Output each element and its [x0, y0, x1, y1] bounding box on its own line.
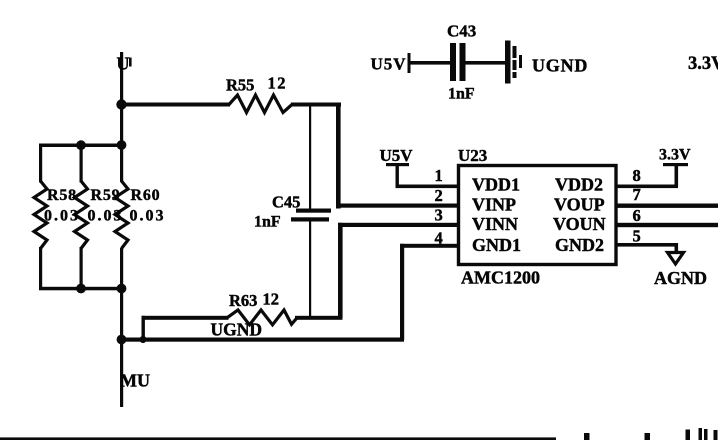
- svg-text:1nF: 1nF: [448, 86, 475, 103]
- svg-text:2: 2: [435, 186, 443, 205]
- svg-text:R59: R59: [91, 187, 121, 204]
- svg-text:C43: C43: [447, 22, 476, 41]
- svg-text:AMC1200: AMC1200: [461, 268, 540, 288]
- svg-text:VOUP: VOUP: [554, 195, 605, 215]
- svg-text:7: 7: [633, 185, 641, 204]
- svg-text:1nF: 1nF: [254, 214, 281, 231]
- svg-text:VINN: VINN: [472, 214, 518, 234]
- svg-text:12: 12: [263, 290, 280, 309]
- svg-text:GND1: GND1: [472, 235, 521, 255]
- svg-text:U5V: U5V: [380, 146, 414, 165]
- svg-text:VDD2: VDD2: [555, 175, 603, 195]
- svg-text:0.03: 0.03: [130, 208, 166, 225]
- svg-text:VINP: VINP: [472, 195, 516, 215]
- svg-text:U: U: [117, 54, 130, 74]
- svg-text:3: 3: [435, 206, 443, 225]
- svg-text:U5V: U5V: [371, 55, 407, 74]
- svg-text:5: 5: [633, 227, 641, 246]
- svg-text:UGND: UGND: [211, 320, 263, 340]
- svg-text:R60: R60: [131, 187, 161, 204]
- svg-text:12: 12: [268, 74, 288, 93]
- svg-text:MU: MU: [120, 371, 150, 391]
- svg-text:R58: R58: [47, 187, 77, 204]
- svg-text:8: 8: [633, 166, 641, 185]
- svg-text:R63: R63: [229, 291, 257, 310]
- svg-text:VDD1: VDD1: [472, 175, 520, 195]
- svg-text:0.03: 0.03: [88, 208, 124, 225]
- svg-text:AGND: AGND: [654, 268, 707, 288]
- svg-text:C45: C45: [272, 193, 300, 212]
- svg-text:U23: U23: [458, 146, 487, 165]
- svg-text:0.03: 0.03: [44, 208, 80, 225]
- svg-text:3.3V: 3.3V: [659, 147, 691, 164]
- svg-text:4: 4: [435, 229, 443, 248]
- svg-text:R55: R55: [226, 76, 254, 95]
- svg-text:VOUN: VOUN: [553, 214, 606, 234]
- svg-text:GND2: GND2: [555, 235, 604, 255]
- svg-text:6: 6: [633, 206, 641, 225]
- svg-text:3.3V: 3.3V: [688, 54, 718, 74]
- svg-text:UGND: UGND: [532, 56, 588, 76]
- svg-text:1: 1: [435, 166, 443, 185]
